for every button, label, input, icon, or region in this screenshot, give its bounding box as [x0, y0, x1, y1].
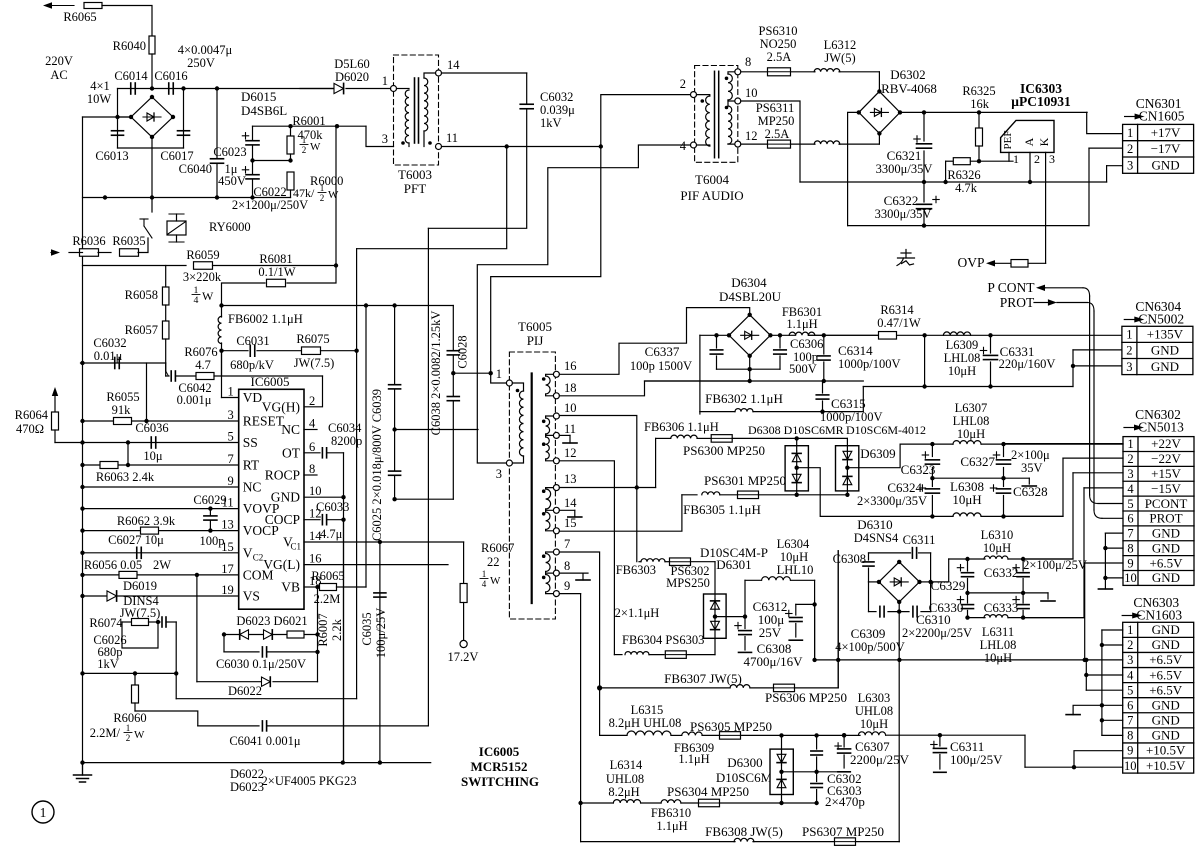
svg-text:D6022: D6022: [228, 684, 262, 698]
svg-text:C6309: C6309: [851, 626, 886, 641]
capacitor C6033 4.7u on COCP: [304, 519, 320, 521]
wire vertical B x356: [356, 249, 358, 699]
svg-text:ROCP: ROCP: [265, 468, 300, 483]
wire mid rail: [932, 477, 1029, 479]
svg-text:C6025 2×0.018μ/800V C6039: C6025 2×0.018μ/800V C6039: [370, 389, 384, 541]
svg-text:+10.5V: +10.5V: [1146, 743, 1186, 758]
svg-text:2: 2: [126, 733, 131, 743]
wire -17V entry: [1089, 147, 1123, 149]
transformer T6004 core: [714, 71, 716, 157]
wire L6307 rail +22V: [932, 443, 953, 445]
svg-text:C6306: C6306: [790, 337, 823, 351]
wire bridge bottom loop: [717, 368, 781, 370]
svg-text:L6311: L6311: [982, 625, 1014, 639]
capacitor C6308 (snubber left): [863, 561, 874, 563]
svg-text:C6013: C6013: [95, 149, 128, 163]
svg-text:PCONT: PCONT: [1145, 496, 1188, 511]
wire GND pin10: [304, 496, 344, 498]
svg-text:D10SC6M-4012: D10SC6M-4012: [846, 423, 926, 437]
svg-text:2×100μ: 2×100μ: [1011, 448, 1050, 462]
svg-text:PS6311: PS6311: [756, 101, 794, 115]
wire: [184, 88, 218, 90]
svg-text:2: 2: [1127, 638, 1133, 652]
svg-text:FB6308 JW(5): FB6308 JW(5): [705, 824, 783, 839]
wire R6076/C6042 to IC pin1: [221, 351, 223, 376]
svg-text:μPC10931: μPC10931: [1011, 94, 1071, 109]
svg-text:C6314: C6314: [838, 343, 873, 358]
wire D6308 mid out to -22V rail: [797, 468, 933, 517]
wire D6300 mid row: [782, 771, 845, 773]
capacitor C6322 3300u/35V: [923, 182, 925, 202]
svg-text:3: 3: [1127, 653, 1133, 667]
svg-text:8200p: 8200p: [331, 434, 362, 448]
svg-text:COCP: COCP: [265, 512, 300, 527]
svg-text:2×470p: 2×470p: [825, 794, 865, 809]
node dots T6003: [401, 141, 405, 145]
wire pin14 to C6032: [442, 72, 527, 74]
inductor FB6306 1.1uH: [656, 437, 670, 439]
inductor L6309 LHL08 10uH: [922, 333, 926, 337]
wire CN6303 gnd bracket rows 1-2-6-7-8: [1102, 629, 1123, 631]
svg-text:PS6310: PS6310: [759, 24, 798, 38]
svg-text:D6022: D6022: [230, 767, 264, 781]
svg-text:NC: NC: [243, 480, 262, 495]
svg-text:100p: 100p: [200, 534, 225, 548]
wire R6001 top rail: [253, 125, 367, 127]
resistor R6063 2.4k: [100, 462, 118, 469]
capacitor C6337 100p 1500V: [716, 335, 718, 348]
inductor FB6303: [639, 561, 641, 563]
svg-text:3: 3: [1126, 360, 1132, 374]
svg-text:C6029: C6029: [193, 493, 226, 507]
svg-text:PS6304 MP250: PS6304 MP250: [667, 784, 749, 799]
svg-text:C6330: C6330: [929, 600, 964, 615]
svg-text:470Ω: 470Ω: [16, 422, 44, 436]
svg-text:R6036: R6036: [72, 234, 105, 248]
wire FB6302 row: [699, 412, 701, 414]
capacitor C6313 (second 100u): [812, 602, 816, 606]
wire pin15 row to PS6301: [559, 495, 682, 531]
svg-text:R6075: R6075: [296, 332, 329, 346]
svg-text:91k: 91k: [112, 403, 132, 417]
svg-text:PS6305 MP250: PS6305 MP250: [690, 719, 772, 734]
svg-text:C6327: C6327: [960, 454, 995, 469]
svg-text:0.01μ: 0.01μ: [94, 349, 123, 363]
svg-text:GND: GND: [1151, 343, 1179, 358]
wire pin12 row: [559, 461, 614, 655]
svg-text:R6081: R6081: [259, 252, 292, 266]
svg-text:4: 4: [482, 579, 487, 589]
svg-text:220μ/160V: 220μ/160V: [999, 357, 1056, 371]
wire lower rail y381: [645, 380, 864, 382]
svg-text:VG(H): VG(H): [262, 399, 300, 414]
wire +135V rail: [808, 334, 878, 336]
wire bottom-left bus: [83, 762, 431, 764]
svg-text:FB6304 PS6303: FB6304 PS6303: [622, 633, 704, 647]
inductor L6312 JW(5): [814, 69, 840, 72]
svg-text:C6315: C6315: [831, 396, 866, 411]
wire row to snubber column: [222, 305, 454, 307]
wire +6.5V row9 entry: [1085, 562, 1123, 564]
svg-text:4.7: 4.7: [195, 358, 211, 372]
svg-text:GND: GND: [1152, 526, 1180, 541]
label chinese qu (drawn): [905, 250, 907, 259]
svg-text:C6032: C6032: [540, 90, 573, 104]
svg-text:2×1.1μH: 2×1.1μH: [615, 606, 660, 620]
transformer T6003 dashed box: [394, 55, 439, 165]
svg-text:2: 2: [1126, 344, 1132, 358]
wire L6314 row: [581, 802, 613, 804]
svg-text:W: W: [202, 289, 214, 303]
svg-text:100μ/25V: 100μ/25V: [374, 608, 388, 658]
svg-text:10: 10: [564, 401, 577, 415]
capacitor C6029 100p: [209, 509, 211, 515]
svg-text:GND: GND: [1152, 728, 1180, 743]
svg-text:OT: OT: [282, 445, 301, 460]
svg-text:GND: GND: [1152, 570, 1180, 585]
svg-text:9: 9: [227, 474, 233, 488]
svg-text:2.5A: 2.5A: [767, 50, 792, 64]
svg-text:+6.5V: +6.5V: [1149, 652, 1183, 667]
wire pin10 to mid rail: [741, 101, 800, 182]
wire CN6304 row3 GND: [1071, 364, 1075, 368]
wire left vertical bus: [82, 117, 84, 775]
svg-text:−17V: −17V: [1151, 141, 1181, 156]
svg-text:2×2200μ/25V: 2×2200μ/25V: [902, 626, 972, 640]
resistor R6056 0.05 2W: [119, 571, 137, 578]
svg-text:IC6005: IC6005: [251, 374, 290, 389]
resistor R6035: [120, 249, 139, 257]
svg-text:15: 15: [564, 516, 577, 530]
svg-text:1kV: 1kV: [540, 116, 562, 130]
resistor R6065 2.2M on VB: [304, 586, 318, 588]
svg-text:GND: GND: [1152, 157, 1180, 172]
svg-text:3: 3: [496, 467, 502, 481]
svg-text:2.2M/: 2.2M/: [90, 726, 121, 740]
svg-text:1: 1: [1127, 623, 1133, 637]
svg-text:C6031: C6031: [236, 334, 269, 348]
wire CN6304 row2 GND: [1073, 349, 1122, 351]
wire +10.5V bus row10: [1025, 766, 1123, 768]
svg-text:R6076: R6076: [184, 345, 217, 359]
wire +17V entry step: [1088, 111, 1124, 114]
svg-text:PS6306 MP250: PS6306 MP250: [765, 690, 847, 705]
wire: [151, 54, 153, 89]
svg-text:FB6307 JW(5): FB6307 JW(5): [664, 671, 742, 686]
diode D6019 DINS4: [107, 591, 117, 601]
wire right end up: [862, 387, 864, 412]
wire left rows: [83, 672, 177, 674]
wire D6310 right: [920, 581, 931, 583]
wire VG(L) row pin16: [304, 564, 448, 566]
svg-text:MCR5152: MCR5152: [470, 759, 527, 774]
svg-text:MP250: MP250: [758, 114, 795, 128]
wire C6028 tap: [453, 372, 490, 374]
svg-text:L6315: L6315: [631, 703, 664, 717]
svg-text:3300μ/35V: 3300μ/35V: [876, 162, 933, 176]
svg-text:CN5002: CN5002: [1138, 312, 1184, 327]
wire: [213, 265, 337, 267]
wire bottom link x356: [176, 698, 356, 700]
svg-text:D4SNS4: D4SNS4: [854, 531, 899, 545]
wire: [98, 252, 111, 254]
svg-text:2: 2: [1127, 452, 1133, 466]
inductor FB6304 / fuse PS6303 row: [614, 654, 622, 656]
svg-text:4: 4: [1127, 482, 1134, 496]
svg-text:7: 7: [227, 452, 233, 466]
svg-text:12: 12: [745, 129, 758, 143]
svg-text:R6059: R6059: [186, 248, 219, 262]
svg-text:18: 18: [564, 381, 577, 395]
svg-text:3: 3: [1049, 152, 1055, 166]
svg-text:C6027 10μ: C6027 10μ: [108, 533, 164, 547]
svg-text:+22V: +22V: [1151, 436, 1181, 451]
capacitor C6315 1000p/100V: [822, 381, 824, 393]
svg-text:1: 1: [482, 569, 487, 579]
wire L6304 node drop: [814, 604, 816, 660]
svg-text:3: 3: [382, 132, 388, 146]
transformer T6005 primary: [506, 380, 512, 386]
svg-text:4: 4: [1127, 668, 1134, 682]
svg-text:1: 1: [1126, 328, 1132, 342]
svg-text:UHL08: UHL08: [855, 704, 893, 718]
svg-text:+135V: +135V: [1147, 327, 1184, 342]
svg-text:C6038 2×0.0082/1.25kV: C6038 2×0.0082/1.25kV: [429, 311, 443, 436]
capacitor C6324 2x3300u/35V: [931, 478, 933, 486]
svg-text:L6312: L6312: [824, 38, 857, 52]
svg-text:UHL08: UHL08: [606, 772, 644, 786]
capacitor C6307 2200u/25V: [842, 733, 846, 737]
capacitor C6022: [250, 158, 254, 162]
wire VC2 row: [83, 552, 239, 554]
diodes D6023 D6021 row: [224, 634, 318, 636]
wire x580 drop: [580, 594, 582, 842]
svg-text:MPS250: MPS250: [666, 576, 710, 590]
svg-text:8: 8: [564, 559, 570, 573]
svg-text:5: 5: [1127, 497, 1133, 511]
wire pin9 row: [559, 593, 580, 595]
svg-text:D6309: D6309: [860, 446, 895, 461]
svg-text:1: 1: [1013, 152, 1019, 166]
capacitor C6025 pair x394: [394, 306, 396, 385]
svg-text:4×0.0047μ: 4×0.0047μ: [178, 43, 233, 57]
svg-text:PIF AUDIO: PIF AUDIO: [680, 188, 743, 203]
svg-text:3: 3: [1127, 158, 1133, 172]
svg-text:R6325: R6325: [962, 84, 995, 98]
wire R6059 row: [83, 265, 187, 267]
svg-text:1: 1: [1127, 126, 1133, 140]
wire bridge right rail: [183, 89, 185, 149]
svg-text:JW(7.5): JW(7.5): [294, 356, 335, 370]
capacitors C6302 C6303 2x470p: [816, 735, 818, 749]
capacitor C6031 680p/kV: [249, 345, 251, 356]
svg-text:R6063 2.4k: R6063 2.4k: [96, 470, 155, 484]
svg-text:2: 2: [1127, 142, 1133, 156]
svg-text:4.7μ: 4.7μ: [320, 527, 343, 541]
svg-text:A: A: [1022, 137, 1036, 146]
resistor R6065 (AC line): [84, 3, 102, 9]
svg-text:0.001μ: 0.001μ: [177, 393, 212, 407]
inductor FB6002 1.1uH: [221, 306, 223, 318]
svg-text:2×3300μ/35V: 2×3300μ/35V: [857, 494, 927, 508]
svg-text:1: 1: [126, 723, 131, 733]
wire pin8 stub: [559, 572, 588, 574]
svg-text:PFT: PFT: [404, 181, 426, 196]
svg-text:OVP: OVP: [957, 255, 984, 270]
svg-text:1.1μH: 1.1μH: [678, 752, 709, 766]
wire T6004 pin4 to staircase: [477, 145, 690, 463]
svg-text:2: 2: [302, 145, 307, 155]
svg-text:AC: AC: [50, 68, 67, 82]
svg-text:C6014: C6014: [114, 69, 148, 83]
bridge rectifier D6304 D4SBL20U: [729, 315, 770, 356]
svg-text:+17V: +17V: [1151, 125, 1181, 140]
svg-text:2×100μ/25V: 2×100μ/25V: [1023, 558, 1087, 572]
wire COM row: [83, 574, 239, 576]
svg-text:10: 10: [309, 484, 322, 498]
svg-text:1: 1: [40, 805, 47, 820]
wire T6003 feed from R6001 rail: [366, 126, 394, 146]
capacitor C6017: [178, 130, 190, 132]
wire +135V gnd rail: [863, 386, 1073, 388]
svg-text:16: 16: [309, 552, 322, 566]
svg-text:L6314: L6314: [610, 758, 643, 772]
svg-text:W: W: [310, 141, 321, 153]
svg-text:3×220k: 3×220k: [183, 270, 222, 284]
wire vertical from R6001 node: [335, 126, 337, 265]
wire D6308-D6309 bottom link: [797, 494, 848, 496]
svg-text:FB6305 1.1μH: FB6305 1.1μH: [683, 502, 761, 517]
wire bridge bottom: [118, 147, 184, 149]
svg-text:8: 8: [309, 462, 315, 476]
wire +6.5 bus left end: [814, 604, 816, 660]
svg-text:PIJ: PIJ: [527, 333, 544, 348]
svg-text:1: 1: [1127, 437, 1133, 451]
svg-text:FB6310: FB6310: [651, 806, 691, 820]
svg-text:2W: 2W: [153, 558, 171, 572]
wire VOCP row: [83, 530, 239, 532]
wire D6301 mid out: [715, 616, 745, 618]
svg-text:T6005: T6005: [518, 319, 552, 334]
svg-text:D6300: D6300: [727, 755, 762, 770]
fuse PS6311 MP250 2.5A: [741, 143, 767, 145]
svg-text:C6333: C6333: [984, 600, 1019, 615]
svg-text:14: 14: [564, 496, 577, 510]
svg-text:10: 10: [1124, 571, 1137, 585]
svg-text:450V: 450V: [218, 174, 246, 188]
svg-text:25V: 25V: [759, 625, 782, 640]
wire VOVP row: [83, 508, 239, 510]
svg-text:C6324: C6324: [887, 480, 922, 495]
svg-text:6: 6: [309, 440, 315, 454]
inductor L6308 10uH: [932, 515, 953, 517]
svg-text:100μ/25V: 100μ/25V: [950, 752, 1003, 767]
svg-text:10: 10: [745, 86, 758, 100]
wire D6310 out to L6310 rail: [931, 559, 949, 582]
svg-text:10μH: 10μH: [948, 364, 976, 378]
svg-text:RT: RT: [243, 458, 260, 473]
wire row9 +10.5V entry: [1074, 751, 1123, 768]
wire D6310 bottom drop: [898, 612, 900, 842]
svg-text:C6322: C6322: [884, 193, 919, 208]
capacitor C6309 b: [912, 606, 914, 617]
svg-text:C6328: C6328: [1013, 484, 1048, 499]
svg-text:VS: VS: [243, 589, 260, 604]
wire GND entry CN6301: [1107, 165, 1123, 167]
wire bottom rail: [848, 225, 1089, 227]
wire AC input arrow: [43, 2, 52, 8]
wire c6309 top link: [837, 551, 839, 688]
fuse PS6302 MPS250: [670, 558, 691, 566]
capacitor C6333: [1022, 593, 1024, 603]
svg-text:K: K: [1037, 137, 1051, 146]
svg-text:1000p/100V: 1000p/100V: [820, 410, 883, 424]
resistor R6000 47k: [287, 172, 294, 190]
svg-text:220V: 220V: [45, 54, 73, 68]
svg-text:4: 4: [194, 295, 199, 306]
svg-text:D4SBL20U: D4SBL20U: [719, 289, 782, 304]
svg-text:5: 5: [1127, 683, 1133, 697]
svg-text:35V: 35V: [1021, 461, 1043, 475]
svg-text:RY6000: RY6000: [209, 220, 251, 234]
svg-text:R6040: R6040: [113, 39, 146, 53]
capacitor C6331 220u/160V: [988, 333, 992, 337]
svg-text:0.039μ: 0.039μ: [540, 103, 575, 117]
transformer T6004 secondary 12: [727, 101, 729, 106]
transformer T6005 winding 16-18: [553, 371, 559, 377]
svg-text:C6017: C6017: [160, 149, 193, 163]
svg-text:10μH: 10μH: [957, 427, 985, 441]
svg-text:1: 1: [382, 74, 388, 88]
svg-text:4: 4: [680, 139, 687, 153]
svg-text:17: 17: [221, 562, 234, 576]
svg-text:IC6005: IC6005: [479, 744, 520, 759]
wire vertical C6032 row link: [146, 363, 148, 421]
svg-text:C6311: C6311: [903, 533, 936, 547]
resistor R6001 470k: [290, 126, 292, 136]
wire D6309 out: [847, 444, 932, 468]
capacitor C6311 100u/25V: [939, 735, 941, 746]
svg-text:L6310: L6310: [981, 528, 1014, 542]
svg-text:CN1605: CN1605: [1139, 109, 1185, 124]
svg-text:SS: SS: [243, 435, 258, 450]
wire OVP to IC6303 pin3: [1045, 182, 1047, 263]
IC6303 pin1: [1008, 152, 1010, 161]
svg-text:9: 9: [1127, 556, 1133, 570]
svg-text:W: W: [328, 189, 339, 201]
IC6303 pin3: [1045, 152, 1047, 182]
transformer T6004 secondary 8-10: [735, 69, 741, 75]
wire mid rail c6329: [968, 592, 1049, 594]
resistor R6036: [80, 249, 99, 257]
wire left vertex rail: [700, 334, 729, 336]
svg-text:PEF: PEF: [1002, 131, 1014, 150]
wire PROT vertical: [1093, 311, 1095, 510]
svg-text:8: 8: [1127, 729, 1133, 743]
wire D6302 left rail: [848, 112, 859, 225]
svg-text:12: 12: [564, 446, 577, 460]
svg-text:47k/: 47k/: [293, 186, 315, 200]
IC U IC6005 box: [239, 389, 304, 609]
capacitor C6027 10u: [136, 547, 138, 558]
transformer T6005 winding 13-14-15: [553, 485, 559, 491]
svg-text:+6.5V: +6.5V: [1149, 667, 1183, 682]
svg-text:19: 19: [221, 583, 234, 597]
svg-text:C6030 0.1μ/250V: C6030 0.1μ/250V: [216, 657, 306, 671]
svg-text:R6062 3.9k: R6062 3.9k: [117, 514, 176, 528]
svg-text:3: 3: [1127, 467, 1133, 481]
svg-text:GND: GND: [1152, 622, 1180, 637]
